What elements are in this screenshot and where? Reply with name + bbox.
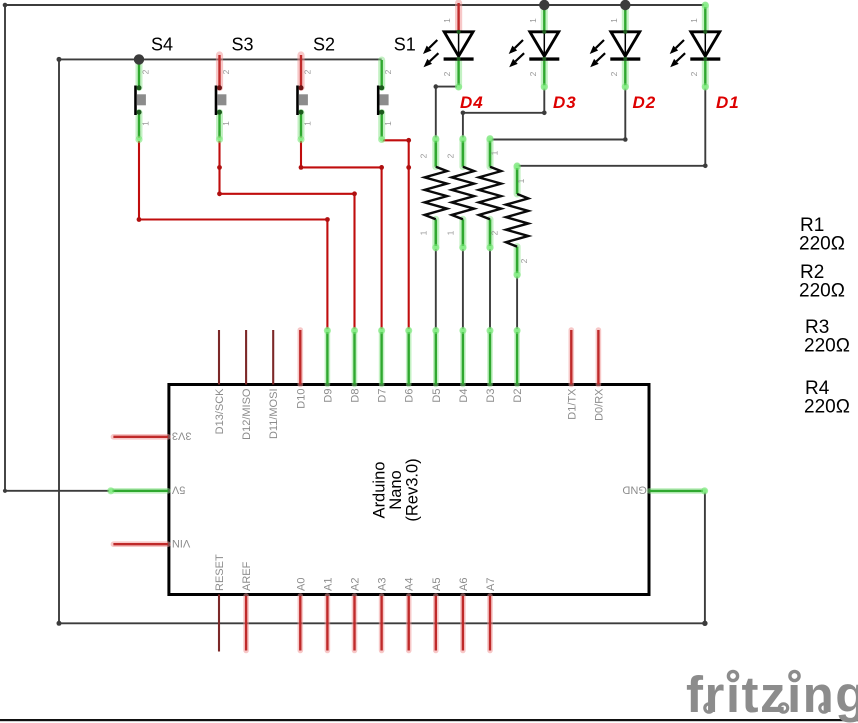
svg-text:D3: D3 [553,93,577,112]
svg-text:1: 1 [418,230,428,235]
svg-text:1: 1 [303,121,313,126]
svg-text:A2: A2 [350,578,362,591]
svg-text:S4: S4 [151,35,173,55]
svg-text:1: 1 [489,150,499,155]
svg-text:2: 2 [689,71,699,76]
svg-text:A0: A0 [295,578,307,591]
svg-text:S1: S1 [394,35,416,55]
svg-text:D5: D5 [431,389,443,403]
svg-text:5V: 5V [171,484,185,496]
svg-text:VIN: VIN [172,537,190,549]
svg-text:2: 2 [442,71,452,76]
svg-text:S3: S3 [232,35,254,55]
svg-text:1: 1 [442,18,452,23]
svg-text:2: 2 [489,230,499,235]
svg-text:220Ω: 220Ω [804,397,850,418]
svg-text:Nano: Nano [387,470,405,509]
svg-text:1: 1 [141,121,151,126]
svg-text:3V3: 3V3 [172,430,192,442]
svg-text:1: 1 [528,18,538,23]
svg-text:1: 1 [383,121,393,126]
svg-text:D1: D1 [716,93,740,112]
svg-text:D0/RX: D0/RX [593,388,605,421]
svg-text:D12/MISO: D12/MISO [241,388,253,440]
svg-text:1: 1 [516,178,526,183]
svg-text:D6: D6 [404,389,416,403]
svg-text:220Ω: 220Ω [799,234,845,255]
svg-text:A4: A4 [404,578,416,591]
svg-text:2: 2 [609,71,619,76]
svg-text:D3: D3 [485,389,497,403]
svg-text:2: 2 [303,69,313,74]
svg-text:frıtzıng: frıtzıng [686,666,858,723]
svg-text:D10: D10 [295,389,307,409]
svg-text:D8: D8 [350,389,362,403]
svg-text:A5: A5 [431,578,443,591]
svg-text:D4: D4 [458,389,470,403]
svg-text:RESET: RESET [214,554,226,591]
svg-text:A7: A7 [485,578,497,591]
svg-text:2: 2 [383,69,393,74]
svg-text:1: 1 [445,230,455,235]
svg-text:A6: A6 [458,578,470,591]
svg-text:2: 2 [141,69,151,74]
svg-text:GND: GND [622,484,647,496]
svg-text:A3: A3 [377,578,389,591]
svg-text:220Ω: 220Ω [804,336,850,357]
svg-text:D2: D2 [633,93,657,112]
svg-text:(Rev3.0): (Rev3.0) [404,458,422,521]
svg-text:A1: A1 [322,578,334,591]
svg-text:1: 1 [609,18,619,23]
svg-text:D13/SCK: D13/SCK [214,388,226,435]
svg-text:2: 2 [528,71,538,76]
svg-text:D7: D7 [377,389,389,403]
svg-text:D2: D2 [512,389,524,403]
svg-text:S2: S2 [313,35,335,55]
svg-text:Arduino: Arduino [371,462,389,519]
svg-text:2: 2 [221,69,231,74]
svg-text:1: 1 [221,121,231,126]
svg-text:2: 2 [519,258,529,263]
svg-text:2: 2 [418,153,428,158]
svg-text:D11/MOSI: D11/MOSI [268,389,280,440]
svg-text:AREF: AREF [241,561,253,591]
svg-text:1: 1 [689,18,699,23]
svg-text:D1/TX: D1/TX [566,388,578,420]
svg-text:D4: D4 [460,93,484,112]
svg-text:220Ω: 220Ω [799,281,845,302]
svg-text:2: 2 [445,153,455,158]
svg-text:D9: D9 [322,389,334,403]
